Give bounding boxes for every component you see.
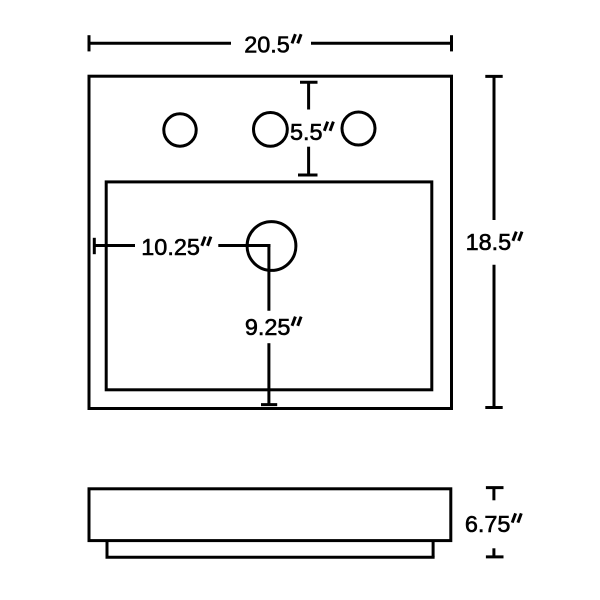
sink base pedestal right edge (side view) bbox=[432, 541, 435, 558]
basin inner rectangle (top view) bbox=[106, 182, 432, 390]
dimension 5.5in: top tick bar bbox=[300, 81, 318, 84]
dimension 20.5in: right tick bbox=[450, 35, 453, 51]
dimension 5.5in: bottom tick bar bbox=[298, 174, 318, 177]
svg-text:10.25: 10.25 bbox=[141, 234, 200, 260]
dimension 18.5in: bottom tick bar bbox=[485, 406, 502, 409]
dimension 10.25in: line left segment bbox=[94, 244, 135, 247]
dimension 5.5in: inch double prime bbox=[324, 122, 327, 131]
dimension 5.5in: line lower segment bbox=[307, 147, 310, 175]
faucet hole right bbox=[342, 112, 375, 145]
dimension 6.75in: bottom tick bar bbox=[486, 555, 504, 558]
svg-text:5.5: 5.5 bbox=[290, 119, 323, 145]
dimension 20.5in: inch double prime bbox=[292, 34, 295, 43]
dimension 10.25in: inch double prime bbox=[202, 237, 205, 246]
svg-text:20.5: 20.5 bbox=[244, 32, 290, 58]
svg-text:6.75: 6.75 bbox=[465, 511, 511, 537]
dimension 6.75in: inch double prime bbox=[512, 513, 515, 522]
dimension 18.5in: top tick bar bbox=[485, 75, 502, 78]
dimension 9.25in: vertical line upper segment from drain center bbox=[267, 244, 270, 311]
sink base pedestal bottom edge (side view) bbox=[106, 556, 435, 559]
svg-text:9.25: 9.25 bbox=[245, 314, 291, 340]
drain hole circle bbox=[247, 222, 296, 271]
dimension 20.5in: left tick bbox=[88, 35, 91, 51]
dimension 9.25in: bottom tick bar bbox=[261, 403, 277, 406]
dimension 18.5in: line lower segment bbox=[493, 265, 496, 408]
dimension 6.75in: lower stub bbox=[492, 548, 495, 557]
svg-text:18.5: 18.5 bbox=[466, 229, 512, 255]
dimension 20.5in: line right segment bbox=[311, 42, 452, 45]
faucet hole center bbox=[254, 112, 288, 146]
dimension 6.75in: top tick bar bbox=[486, 486, 504, 489]
dimension 20.5in: line left segment bbox=[89, 42, 231, 45]
dimension 9.25in: inch double prime bbox=[292, 317, 295, 326]
dimension 9.25in: vertical line lower segment bbox=[267, 343, 270, 404]
dimension 18.5in: line upper segment bbox=[493, 76, 496, 220]
dimension 18.5in: inch double prime bbox=[513, 232, 516, 241]
faucet hole left bbox=[164, 114, 196, 146]
sink outer rim (top view) bbox=[89, 76, 452, 408]
dimension 6.75in: upper stub bbox=[492, 488, 495, 501]
sink body (side view) bbox=[89, 489, 451, 541]
sink base pedestal left edge (side view) bbox=[106, 541, 109, 558]
dimension 10.25in: line right segment to drain center bbox=[218, 244, 270, 247]
dimension 5.5in: line upper segment bbox=[307, 82, 310, 109]
dimension 10.25in: left tick bbox=[93, 238, 96, 254]
